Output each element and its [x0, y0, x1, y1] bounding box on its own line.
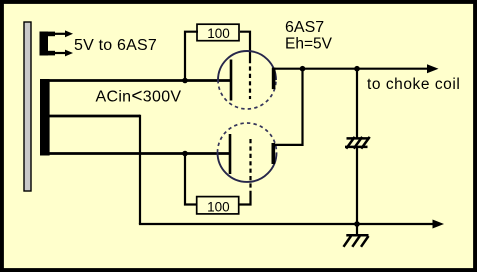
svg-text:to choke coil: to choke coil — [367, 76, 460, 93]
wire: lower resistor left leg — [185, 154, 197, 205]
svg-text:100: 100 — [207, 199, 230, 214]
label: 6AS7 Eh=5V — [285, 19, 333, 52]
svg-text:6AS7: 6AS7 — [285, 19, 324, 36]
wire: upper resistor right leg — [240, 32, 250, 59]
wire: V1b cathode to top rail — [275, 69, 303, 145]
junction node: rail / lower cathode — [300, 66, 306, 72]
resistor 100 (upper, grid) — [197, 24, 239, 41]
plate of V1a — [230, 60, 233, 101]
arrowhead top rail — [427, 64, 439, 73]
wire: center tap down — [139, 115, 141, 224]
junction node: bottom rail / ground — [354, 221, 360, 227]
arrowhead bottom rail — [433, 220, 445, 229]
wire: capacitor branch from top rail — [356, 69, 358, 139]
wire: upper plate lead — [48, 79, 231, 82]
svg-text:100: 100 — [207, 26, 230, 41]
transformer core T1 — [24, 22, 31, 191]
junction node: lower plate / resistor — [182, 151, 188, 157]
wire: lower plate lead — [48, 152, 230, 155]
ground symbol — [344, 224, 369, 247]
capacitor C1 (hatched plate symbol) — [345, 137, 370, 149]
cathode of V1a — [272, 68, 276, 90]
svg-text:Eh=5V: Eh=5V — [285, 35, 333, 52]
tube section V1a (6AS7 upper half) envelope — [218, 51, 276, 109]
5V heater winding of T1 — [40, 32, 56, 56]
tube section V1b (6AS7 lower half) envelope — [218, 123, 277, 182]
grid of V1a (dashed) — [249, 59, 251, 99]
HV secondary winding of T1 — [40, 79, 50, 156]
plate of V1b — [229, 134, 232, 174]
heater lead arrow (top) — [55, 30, 73, 37]
heater lead arrow (bottom) — [55, 50, 73, 57]
wire: top output rail — [274, 68, 428, 70]
svg-text:5V to 6AS7: 5V to 6AS7 — [74, 37, 157, 54]
svg-text:ACin<300V: ACin<300V — [96, 86, 182, 107]
wire: lower resistor right leg — [239, 195, 251, 205]
cathode of V1b — [272, 143, 276, 164]
wire: center tap lead — [48, 115, 140, 118]
junction node: upper plate / resistor — [182, 78, 188, 84]
junction node: rail / capacitor — [354, 66, 360, 72]
resistor 100 (lower, grid) — [197, 197, 239, 215]
wire: capacitor to bottom rail — [356, 147, 358, 224]
wire: bottom ground rail — [139, 223, 434, 225]
grid of V1b (dashed) — [249, 139, 251, 196]
wire: upper resistor left leg — [185, 32, 198, 81]
